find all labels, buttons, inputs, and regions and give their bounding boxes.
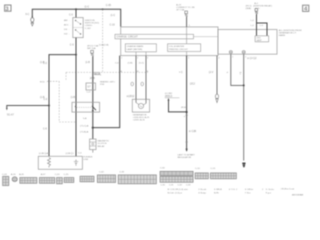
heated text block: [100, 81, 116, 87]
connector K5: [57, 178, 63, 184]
svg-text:C-10: C-10: [110, 23, 116, 26]
starter arrow wire left: [6, 106, 49, 111]
svg-text:<4G6-GDI> A-25: <4G6-GDI> A-25: [133, 116, 150, 119]
connector K9: [118, 175, 156, 184]
svg-text:L-0: L-0: [251, 20, 255, 22]
battery box labels above: [39, 152, 75, 155]
svg-text:(1-B)(2-B): (1-B)(2-B): [99, 45, 109, 47]
svg-text:(1-C: (1-C: [111, 14, 116, 17]
svg-text:GENERATOR: GENERATOR: [133, 114, 147, 117]
svg-text:⊘(2D)2: ⊘(2D)2: [126, 95, 135, 98]
K10 bottom labels: [161, 184, 192, 186]
svg-text:o: o: [100, 74, 102, 76]
wire below ignition switch: [75, 38, 77, 157]
legend line 2: [168, 192, 272, 195]
svg-text:M: M: [137, 71, 139, 73]
svg-text:L=3: L=3: [87, 92, 91, 94]
ignition switch right text block: [85, 20, 99, 30]
lamp wire 1: [231, 54, 244, 85]
svg-text:RELAY: RELAY: [98, 145, 106, 148]
dashed branch line vertical: [102, 9, 104, 72]
svg-text:B: COLOR (1-5) wire: B: COLOR (1-5) wire: [168, 188, 189, 191]
svg-text:ALL (IGNITION) FROM: ALL (IGNITION) FROM: [279, 29, 302, 32]
svg-text:PRINTED CIRCUIT: PRINTED CIRCUIT: [169, 49, 189, 51]
svg-text:IG1→: IG1→: [64, 29, 70, 31]
arrowhead up: [168, 98, 170, 101]
wire color labels left of F2 wire: [80, 117, 89, 134]
junction on wire A at dashed branch: [102, 8, 104, 10]
dashed vertical left: [58, 81, 60, 122]
svg-text:4F-B: 4F-B: [181, 107, 186, 109]
branch from meter to F2 wire: [93, 56, 120, 128]
svg-text:C-20: C-20: [55, 174, 61, 176]
connector labels row bottom-left: [2, 173, 69, 176]
lamp pass-through symbols on box bottom: [229, 51, 245, 54]
svg-text:5C-A7: 5C-A7: [7, 113, 14, 116]
junction dot below relay: [92, 127, 94, 129]
svg-text:HARN: HARN: [279, 34, 286, 37]
svg-text:2: 2: [137, 58, 139, 60]
svg-text:(C2B ┃-A1: (C2B ┃-A1: [39, 152, 50, 155]
svg-text:C-13: C-13: [210, 168, 216, 170]
svg-text:C-0: C-0: [69, 14, 74, 17]
arrow end of L wire: [186, 149, 188, 152]
svg-text:d: d: [227, 72, 229, 74]
connector K1: [3, 176, 9, 185]
junction on wire A at ignition switch: [75, 8, 77, 10]
svg-text:C-05: C-05: [106, 4, 112, 7]
ignition switch left pin labels: [64, 19, 71, 35]
svg-text:(1-B: (1-B: [85, 61, 90, 64]
page marker 4 (top-right): [303, 5, 309, 13]
dashed tag line: [47, 80, 59, 82]
svg-text:(C2B ┃1: (C2B ┃1: [66, 152, 75, 155]
noise condenser connector (top-left): [31, 16, 34, 26]
inline connector on F2 wire bottom: [90, 139, 96, 153]
svg-text:C-10: C-10: [195, 168, 201, 170]
svg-text:1: 1: [232, 57, 234, 59]
svg-text:<2000>: <2000>: [85, 24, 93, 27]
svg-text:6-C: 6-C: [26, 13, 30, 16]
svg-text:L: L: [240, 74, 242, 76]
svg-text:(1-C: (1-C: [85, 6, 90, 9]
svg-text:LAST TO A PART: LAST TO A PART: [178, 154, 196, 157]
meter pin wire 1: [135, 56, 137, 100]
svg-text:1: 1: [189, 25, 191, 27]
legend line 1: [168, 187, 295, 190]
svg-text:C-50: C-50: [160, 168, 166, 170]
connector end symbol on S wire: [215, 94, 218, 102]
svg-text:C-33: C-33: [186, 184, 191, 186]
svg-text:C-0: C-0: [115, 62, 119, 64]
svg-text:3: BR-B: 3: BR-B: [214, 189, 222, 191]
svg-text:C-6: C-6: [43, 128, 48, 131]
svg-text:1: 1: [121, 58, 123, 60]
tick marks on L wire: [185, 115, 187, 142]
svg-text:G?: G?: [87, 85, 91, 88]
AC30 tag: [94, 72, 101, 75]
pin number labels below meter boxes: [121, 57, 247, 60]
svg-text:C-32: C-32: [178, 184, 183, 186]
svg-text:AW1369AB: AW1369AB: [292, 194, 304, 197]
svg-text:C-307: C-307: [85, 28, 92, 30]
pin labels L-0: [251, 20, 264, 27]
svg-text:B-Colr: (1-5)-w: B-Colr: (1-5)-w: [168, 192, 183, 195]
svg-text:MAGNETIC: MAGNETIC: [98, 140, 110, 143]
generator box: [132, 99, 149, 112]
svg-text:(1-C): (1-C): [139, 62, 144, 64]
svg-text:⊘ (2-C)2: ⊘ (2-C)2: [247, 57, 257, 60]
svg-text:4: 4: [218, 58, 220, 60]
svg-text:L-0: L-0: [260, 25, 264, 27]
svg-text:C-30: C-30: [161, 184, 166, 186]
svg-text:P/W: P/W: [100, 84, 105, 86]
svg-text:× C: × C: [179, 71, 183, 74]
tick labels on dashed crossing: [121, 70, 149, 73]
svg-text:(F/L2) 7.5A: (F/L2) 7.5A: [87, 45, 98, 48]
svg-text:⊘C2B2: ⊘C2B2: [165, 92, 173, 95]
svg-text:(2-V: (2-V: [209, 71, 214, 74]
svg-text:2B5G3: 2B5G3: [165, 95, 173, 98]
svg-text:C-31: C-31: [169, 184, 174, 186]
svg-text:2P 7.5A: 2P 7.5A: [176, 8, 184, 11]
pin labels below meter: [115, 62, 144, 64]
fusible link fuse: [255, 9, 258, 14]
junction at left wire: [48, 105, 50, 107]
svg-text:C-92: C-92: [119, 172, 125, 174]
text block right of inline connector: [98, 140, 110, 148]
svg-text:1: 1: [188, 58, 190, 60]
fuse 1 text block left: [176, 3, 195, 11]
svg-text:REGULATOR: REGULATOR: [178, 156, 192, 159]
internal wire from fuse1 to box B: [186, 27, 188, 44]
svg-text:3: GR-br: 3: GR-br: [245, 188, 254, 191]
svg-text:4: Y-G: 4: Y-G: [229, 189, 235, 191]
connector K6: [64, 178, 74, 183]
svg-text:IG2→: IG2→: [64, 33, 70, 35]
svg-text:2: 2: [262, 189, 264, 191]
svg-text:C-0: C-0: [43, 98, 48, 101]
wire to ignition switch: [75, 9, 77, 17]
svg-text:LINK: LINK: [83, 159, 88, 161]
T junction at battery feed: [75, 54, 77, 56]
svg-text:A-20: A-20: [11, 173, 16, 176]
branch to page ref 2B5G3: [169, 100, 187, 112]
svg-text:A-26: A-26: [19, 173, 24, 176]
svg-text:OK-Rev 4-out: OK-Rev 4-out: [281, 187, 295, 190]
generator text block: [133, 114, 150, 122]
branch to second lamp pin: [257, 23, 268, 36]
svg-text:4: B-top: 4: B-top: [198, 192, 206, 195]
meter pin wire 3 (L terminal): [186, 56, 188, 151]
svg-text:(30A): (30A): [246, 7, 252, 10]
charge circuit tag: [115, 34, 194, 39]
connector K12: [210, 173, 236, 179]
fusible link text blocks top right: [246, 2, 273, 10]
text under L wire end: [178, 154, 196, 160]
svg-text:(71-C)-A: (71-C)-A: [80, 125, 89, 128]
dashed branch horizontal: [66, 71, 148, 73]
text right of right unit box: [279, 29, 302, 37]
meter sub box A: [125, 44, 156, 52]
connector K2: [12, 177, 17, 182]
connector K3: [20, 178, 37, 184]
svg-text:B: B: [147, 71, 149, 73]
svg-text:C-0: C-0: [78, 152, 82, 154]
junction on L wire: [186, 111, 188, 113]
svg-text:(1-B): (1-B): [128, 62, 133, 64]
dashed stub down-left: [65, 72, 67, 80]
svg-text:5-A: 5-A: [83, 117, 87, 120]
fuse F2: [91, 50, 94, 55]
svg-text:3: 3: [147, 58, 149, 60]
meter pin wire 2: [145, 56, 147, 100]
svg-text:LAMP: LAMP: [256, 39, 262, 42]
page marker 3 (top-left): [5, 5, 11, 12]
connector K10 lower strip: [160, 176, 193, 182]
fuse 2 label text: [87, 45, 98, 51]
battery box: [38, 156, 82, 169]
svg-text:a: a: [184, 116, 186, 118]
svg-text:ECU→: ECU→: [40, 81, 47, 83]
dashed horizontal to relay: [59, 121, 75, 123]
svg-text:B-Plr: B-Plr: [214, 192, 219, 195]
svg-text:C-25: C-25: [64, 174, 70, 176]
wire F2 vertical: [92, 56, 94, 139]
relay box: [72, 102, 100, 112]
battery feed horizontal wire: [49, 55, 76, 157]
svg-text:F-p-n: F-p-n: [266, 193, 272, 195]
svg-text:2: 2: [236, 189, 238, 191]
svg-text:C-03: C-03: [2, 174, 8, 176]
tag link line: [194, 36, 219, 38]
lamp wire 2 / ground wire: [243, 54, 245, 160]
svg-text:(2C2: (2C2: [190, 83, 196, 86]
svg-text:7: B-n: 7: B-n: [245, 193, 252, 195]
svg-text:⊘ C2B: ⊘ C2B: [189, 130, 197, 133]
svg-text:2: B-colr: 2: B-colr: [198, 188, 206, 191]
svg-text:(71-B)-A: (71-B)-A: [80, 131, 89, 134]
internal wires below box A: [136, 52, 187, 56]
svg-text:AM →: AM →: [64, 19, 70, 22]
svg-text:L-0: L-0: [251, 25, 255, 27]
combination meter box: [121, 27, 218, 56]
battery box right text: [83, 156, 93, 161]
charge warning lamp rect: [255, 36, 269, 42]
connector K11: [195, 173, 208, 179]
svg-text:GENERATOR L/T: GENERATOR L/T: [279, 32, 297, 35]
svg-text:5: Gr-ho: 5: Gr-ho: [266, 188, 275, 191]
ground symbol: [242, 163, 245, 168]
svg-text:LAMP (METER): LAMP (METER): [127, 48, 143, 51]
connector K7: [80, 176, 94, 182]
page ref label 2B5G3: [165, 95, 180, 98]
wire A horizontal top: [32, 9, 120, 26]
inline connector ovals on meter wires: [131, 82, 144, 86]
svg-text:HEATED <MT>: HEATED <MT>: [100, 81, 116, 84]
component box on wire F2: [86, 83, 96, 90]
svg-text:28-B: 28-B: [90, 77, 95, 80]
connector K4: [39, 178, 54, 184]
dark wire from fusible link: [256, 14, 258, 36]
S terminal wire: [216, 56, 218, 95]
svg-text:<4G9> A-26: <4G9> A-26: [133, 119, 146, 122]
svg-text:M/F 10A: M/F 10A: [87, 47, 96, 50]
connector K10 upper strip: [160, 171, 193, 175]
svg-text:(IGNITION RELAY): (IGNITION RELAY): [253, 4, 272, 7]
wire from fuse1 to meter box: [186, 17, 188, 27]
svg-text:C-62: C-62: [99, 172, 105, 174]
svg-text:CHARGE CIRCUIT: CHARGE CIRCUIT: [117, 36, 139, 39]
svg-text:ACC→: ACC→: [64, 24, 71, 27]
svg-text:(1-B: (1-B: [71, 96, 76, 99]
svg-text:CHARGE WARN: CHARGE WARN: [127, 45, 144, 48]
svg-text:C-0: C-0: [70, 43, 75, 46]
junction lamp wires: [243, 84, 245, 86]
svg-text:VOL-M METER: VOL-M METER: [169, 46, 185, 48]
svg-text:A-57: A-57: [41, 173, 46, 176]
ignition switch box: [73, 18, 83, 38]
fuse 1: [185, 11, 188, 16]
right unit box: [218, 30, 277, 55]
meter sub box B: [168, 44, 201, 52]
svg-text:(1-B: (1-B: [40, 61, 45, 64]
connector K8: [97, 175, 115, 183]
